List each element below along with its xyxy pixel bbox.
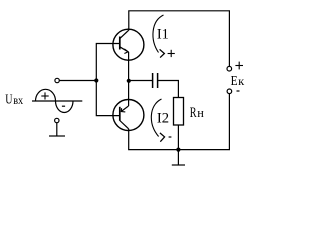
resistor Rн (174, 98, 184, 126)
svg-text:к: к (238, 74, 244, 88)
node dot load junction (176, 148, 180, 152)
svg-text:E: E (231, 74, 238, 89)
terminal Ek minus (227, 89, 232, 94)
plus near Ek (235, 62, 243, 70)
svg-text:R: R (190, 104, 197, 121)
plus in sine (41, 92, 48, 99)
minus near Ek (237, 90, 240, 92)
minus in sine (62, 105, 65, 107)
svg-text:I2: I2 (157, 111, 169, 127)
transistor Q2 (PNP, bottom) (113, 100, 144, 131)
terminal Ek plus (227, 66, 232, 71)
wire top rail (129, 11, 230, 67)
wire capacitor to resistor (158, 81, 178, 98)
svg-text:U: U (5, 92, 12, 107)
svg-text:I1: I1 (157, 27, 169, 43)
minus near I2 (169, 136, 172, 138)
wire base bus (96, 44, 120, 116)
wire resistor bottom (177, 125, 179, 150)
wire emitter node (128, 52, 130, 106)
terminal input bottom (55, 118, 59, 122)
wire bottom rail (129, 94, 230, 150)
svg-text:вх: вх (13, 93, 23, 107)
svg-text:н: н (197, 105, 204, 120)
ground left (49, 123, 65, 136)
current arrow I2 (151, 99, 164, 142)
terminal input top (55, 78, 59, 82)
current arrow I1 (153, 15, 164, 58)
wire node to capacitor (129, 80, 152, 82)
capacitor C (153, 73, 158, 88)
source Uвх sine symbol (32, 89, 82, 112)
node dot emitter junction (127, 79, 131, 83)
node dot input junction (94, 78, 98, 82)
ground right (172, 150, 185, 165)
wire input (59, 80, 96, 82)
plus near I1 (168, 50, 175, 57)
transistor Q1 (NPN, top) (113, 29, 144, 60)
